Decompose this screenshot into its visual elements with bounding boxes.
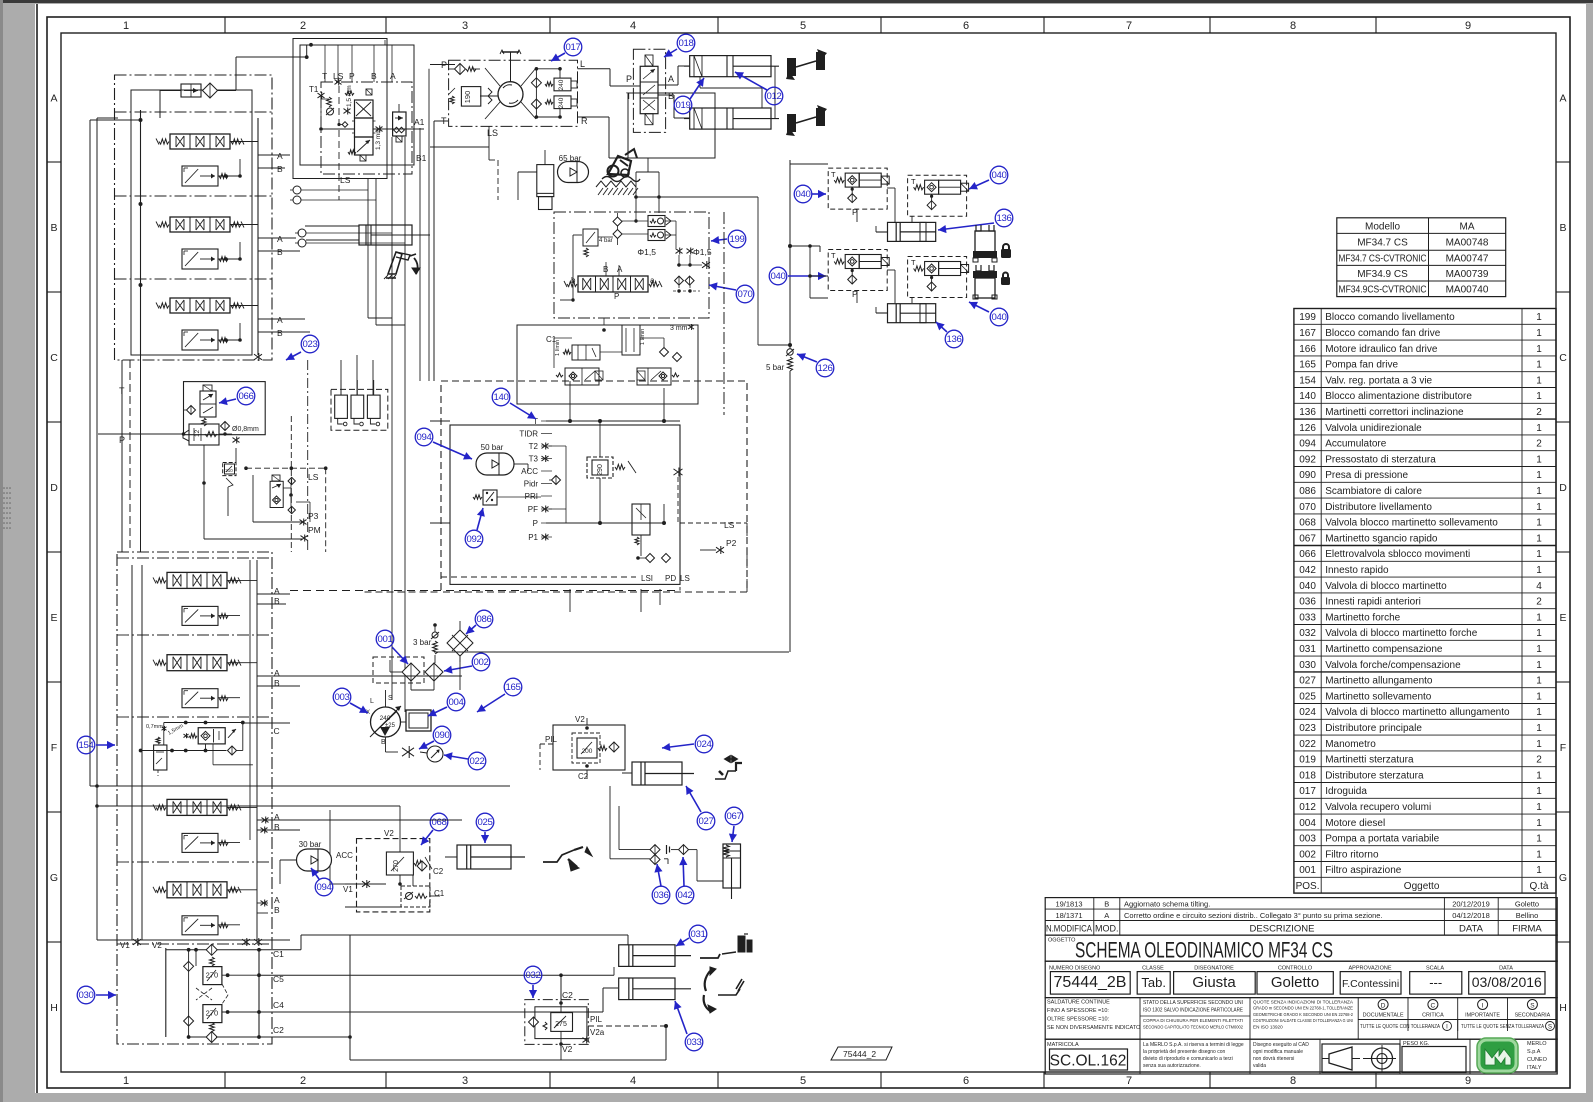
- svg-text:Disegno eseguito al CAD: Disegno eseguito al CAD: [1253, 1042, 1309, 1048]
- grid column ticks: [225, 17, 1376, 1088]
- block 032 inner frame: [535, 1007, 587, 1039]
- svg-text:A: A: [274, 668, 280, 678]
- lower section 4 sub valve: [182, 916, 228, 935]
- section 3 port B label: [277, 328, 283, 338]
- pump V marks: [488, 88, 492, 104]
- svg-text:1: 1: [1536, 312, 1542, 323]
- label 3mm: [670, 324, 694, 332]
- svg-text:1: 1: [1536, 865, 1542, 876]
- svg-text:154: 154: [1299, 375, 1316, 386]
- svg-text:C: C: [1559, 352, 1567, 364]
- svg-text:C: C: [50, 352, 58, 364]
- heat exchanger 086: [447, 621, 473, 662]
- check diamonds lower 140: [636, 554, 670, 563]
- svg-text:199: 199: [729, 234, 744, 245]
- svg-text:001: 001: [377, 634, 392, 645]
- release cylinder 067: [723, 844, 741, 899]
- svg-text:094: 094: [316, 882, 332, 893]
- svg-text:024: 024: [696, 739, 712, 750]
- svg-text:210: 210: [225, 468, 233, 473]
- svg-text:Motore idraulico fan drive: Motore idraulico fan drive: [1325, 344, 1438, 355]
- feed block inner frame: [450, 425, 680, 584]
- svg-text:240: 240: [558, 79, 565, 90]
- circle ref 036: [652, 864, 670, 904]
- pilot lower section: [348, 137, 373, 161]
- cylinder link wires: [700, 66, 775, 118]
- leveling spool 199: [564, 265, 662, 301]
- svg-text:F: F: [51, 742, 57, 754]
- 018 outer wire box: [628, 93, 715, 158]
- svg-text:F: F: [1560, 742, 1566, 754]
- solenoid box 066 frame: [184, 382, 266, 435]
- labels V1 V2: [120, 938, 262, 950]
- circle ref 136 upper: [938, 209, 1013, 233]
- svg-text:POS.: POS.: [1296, 881, 1320, 892]
- circle ref 001: [376, 630, 408, 664]
- svg-text:040: 040: [991, 170, 1006, 181]
- solenoid 2pos left: [556, 368, 603, 385]
- labels 068: [384, 829, 445, 898]
- svg-text:070: 070: [1299, 502, 1316, 513]
- tractor lock icon lower: [973, 265, 1010, 299]
- lower section 4 spool: [153, 882, 241, 898]
- svg-text:Martinetto forche: Martinetto forche: [1325, 612, 1400, 623]
- svg-text:SCALA: SCALA: [1426, 966, 1444, 972]
- labels LSI PD LS: [641, 574, 690, 583]
- svg-text:B: B: [1559, 222, 1566, 234]
- svg-text:7: 7: [1126, 1075, 1132, 1087]
- svg-text:Martinetto compensazione: Martinetto compensazione: [1325, 644, 1443, 655]
- svg-text:092: 092: [1299, 454, 1316, 465]
- 199 wires: [598, 213, 676, 276]
- circle ref 092: [465, 508, 485, 548]
- svg-text:MF34.9 CS: MF34.9 CS: [1357, 269, 1408, 280]
- circle ref 002: [444, 653, 490, 673]
- circle ref 031: [676, 925, 707, 946]
- 024 pilot dashes: [572, 733, 600, 763]
- circle ref 018: [664, 34, 695, 57]
- leveling block 199 dash-dot box: [554, 212, 709, 318]
- label 1,3mm: [375, 128, 382, 150]
- svg-text:Scambiatore di calore: Scambiatore di calore: [1325, 486, 1422, 497]
- circle ref 136 lower: [936, 322, 963, 348]
- port PM: [301, 525, 321, 542]
- circle ref 094b: [311, 868, 333, 896]
- svg-text:T: T: [831, 251, 836, 260]
- 5bar check valve: [766, 349, 794, 372]
- svg-text:ACC: ACC: [521, 467, 538, 476]
- check diamond 024: [609, 742, 619, 752]
- svg-text:SECONDO CAPITOLATO TECNICO ME: SECONDO CAPITOLATO TECNICO MERLO CTM0002: [1143, 1025, 1243, 1031]
- svg-text:MERLO: MERLO: [1527, 1041, 1547, 1047]
- section 3 port A label: [277, 315, 283, 325]
- svg-text:1: 1: [1536, 375, 1542, 386]
- svg-text:1: 1: [1536, 549, 1542, 560]
- svg-text:Filtro ritorno: Filtro ritorno: [1325, 849, 1379, 860]
- svg-text:Motore diesel: Motore diesel: [1325, 818, 1385, 829]
- svg-text:I: I: [1482, 1003, 1484, 1010]
- steering cylinder 019 lower: [684, 108, 779, 129]
- svg-text:1 l/min: 1 l/min: [640, 329, 646, 345]
- svg-text:1: 1: [1536, 533, 1542, 544]
- title block bottom row: [1045, 1039, 1557, 1074]
- svg-text:MA00739: MA00739: [1446, 269, 1489, 280]
- accumulator mount cylinder: [537, 150, 554, 210]
- svg-text:A: A: [390, 71, 396, 81]
- pump rotor circle: [498, 82, 523, 107]
- svg-text:senza sua autorizzazione.: senza sua autorizzazione.: [1143, 1063, 1201, 1069]
- 070 wires: [554, 318, 664, 368]
- leveling valve block frame: [517, 325, 698, 404]
- LS dashed line: [244, 466, 327, 482]
- svg-text:Valvola di blocco martinetto a: Valvola di blocco martinetto allungament…: [1325, 707, 1510, 718]
- diamond checks 070: [660, 348, 682, 362]
- svg-text:7: 7: [1126, 20, 1132, 32]
- svg-text:Distributore livellamento: Distributore livellamento: [1325, 502, 1432, 513]
- svg-text:B: B: [277, 247, 283, 257]
- check diamonds 199: [613, 217, 622, 239]
- svg-text:033: 033: [686, 1037, 701, 1048]
- solenoid valve 066: [200, 385, 216, 426]
- 140 X port: [674, 468, 683, 477]
- svg-text:1: 1: [1536, 612, 1542, 623]
- svg-text:5: 5: [800, 1075, 806, 1087]
- svg-text:Innesti rapidi anteriori: Innesti rapidi anteriori: [1325, 597, 1421, 608]
- svg-text:T3: T3: [529, 455, 539, 464]
- svg-text:V2a: V2a: [590, 1028, 605, 1037]
- feed block port labels: [519, 417, 552, 542]
- coupling wires: [610, 786, 723, 881]
- svg-text:CUNEO: CUNEO: [1527, 1057, 1548, 1063]
- long LS dashed return: [290, 577, 680, 591]
- distributor section 1 sub valve: [182, 166, 228, 186]
- port labels 017: [441, 59, 588, 138]
- svg-text:019: 019: [1299, 755, 1316, 766]
- circle ref 033: [674, 1001, 703, 1051]
- lower section 3 spool: [153, 799, 241, 815]
- svg-text:±25: ±25: [385, 723, 396, 729]
- svg-text:Corretto ordine e circuito sez: Corretto ordine e circuito sezioni distr…: [1124, 911, 1383, 920]
- svg-text:166: 166: [1299, 344, 1316, 355]
- fork cylinder 033: [619, 978, 691, 1000]
- svg-text:Idroguida: Idroguida: [1325, 786, 1367, 797]
- A wire: [658, 66, 690, 85]
- lower section 2 sub valve: [182, 689, 228, 708]
- svg-text:002: 002: [1299, 849, 1316, 860]
- svg-text:Modello: Modello: [1365, 221, 1400, 232]
- relief 270 upper: [184, 957, 222, 985]
- svg-text:2: 2: [1536, 407, 1542, 418]
- pilot unload check: [321, 96, 334, 116]
- svg-text:A: A: [617, 265, 623, 274]
- tilt icon 033: [704, 967, 744, 1013]
- svg-text:A: A: [668, 74, 674, 84]
- LS riser lines: [368, 40, 405, 712]
- svg-text:190: 190: [463, 91, 472, 104]
- svg-text:T: T: [911, 177, 916, 186]
- relief 210: [223, 463, 236, 488]
- lower section 2 spool: [153, 655, 241, 671]
- wire y246: [790, 246, 820, 252]
- circle ref 025: [476, 813, 494, 843]
- svg-text:L: L: [370, 698, 374, 705]
- pilot reducer 12: [178, 424, 252, 446]
- solenoid 2pos right: [637, 368, 679, 385]
- pilot wires: [319, 86, 424, 200]
- svg-text:H: H: [1559, 1002, 1567, 1014]
- distributor section 2 spool: [156, 217, 244, 232]
- svg-text:5: 5: [800, 20, 806, 32]
- wire 030 outputs: [259, 935, 666, 1060]
- solenoid valve 140: [632, 504, 650, 545]
- accumulator feed wire: [430, 421, 528, 471]
- svg-text:Ø0,8mm: Ø0,8mm: [232, 426, 259, 433]
- svg-text:G: G: [50, 872, 58, 884]
- svg-text:Pompa fan drive: Pompa fan drive: [1325, 360, 1398, 371]
- title block fields row: [1045, 961, 1557, 997]
- svg-text:P: P: [533, 519, 538, 528]
- cross pilot dashes 030: [196, 984, 228, 1004]
- circle ref 022: [444, 752, 486, 770]
- svg-text:290: 290: [597, 464, 604, 476]
- svg-text:165: 165: [505, 682, 520, 693]
- svg-text:Φ1,5: Φ1,5: [693, 247, 712, 257]
- svg-text:092: 092: [466, 534, 481, 545]
- svg-text:TUTTE LE QUOTE SENZA TOLLERANZ: TUTTE LE QUOTE SENZA TOLLERANZA: [1461, 1024, 1545, 1030]
- svg-text:03/08/2016: 03/08/2016: [1472, 974, 1542, 990]
- wires into 199 top: [634, 158, 790, 345]
- svg-text:MA00740: MA00740: [1446, 285, 1489, 296]
- circle ref 165: [477, 678, 522, 712]
- svg-text:B: B: [277, 164, 283, 174]
- svg-text:ogni modifica manuale: ogni modifica manuale: [1253, 1049, 1303, 1055]
- svg-text:036: 036: [653, 890, 668, 901]
- svg-text:1: 1: [1536, 770, 1542, 781]
- svg-text:19/1813: 19/1813: [1055, 900, 1082, 909]
- relief 290: [587, 457, 636, 478]
- filter wires: [411, 652, 435, 690]
- lower distributor bus lines: [132, 560, 257, 940]
- svg-text:Presa di pressione: Presa di pressione: [1325, 470, 1408, 481]
- svg-text:154: 154: [78, 740, 94, 751]
- svg-text:002: 002: [473, 657, 488, 668]
- compensation top cylinder: [359, 225, 430, 245]
- diamonds right of selector: [288, 477, 295, 513]
- shock valve 240 upper: [545, 78, 577, 91]
- svg-text:1: 1: [1536, 454, 1542, 465]
- extension cylinder 027: [622, 762, 694, 785]
- svg-text:Giusta: Giusta: [1192, 974, 1236, 991]
- svg-text:1: 1: [1536, 786, 1542, 797]
- distributor section 3 sub valve: [182, 330, 228, 350]
- svg-text:30 bar: 30 bar: [299, 840, 322, 849]
- svg-text:C4: C4: [273, 1000, 284, 1010]
- inclination cylinder 136 lower: [876, 304, 936, 323]
- T wire 017: [434, 121, 448, 381]
- feed block 140 dashed box: [441, 381, 747, 592]
- svg-text:MOD.: MOD.: [1095, 924, 1119, 934]
- wire 126 vertical: [788, 160, 792, 652]
- svg-text:3: 3: [462, 20, 468, 32]
- pilot block port labels: [322, 71, 396, 81]
- LSI dashed stub: [441, 576, 636, 578]
- lower check 068: [401, 886, 430, 907]
- P feed wire to reducer: [98, 432, 185, 445]
- circle ref 086: [466, 610, 493, 634]
- svg-text:CONTROLLO: CONTROLLO: [1278, 966, 1313, 972]
- B wire: [658, 95, 690, 118]
- svg-text:b: b: [571, 276, 576, 285]
- svg-text:023: 023: [302, 339, 317, 350]
- svg-text:042: 042: [1299, 565, 1316, 576]
- svg-text:3 bar: 3 bar: [413, 638, 432, 647]
- wires pilot to 140: [420, 69, 429, 381]
- svg-text:Accumulatore: Accumulatore: [1325, 439, 1387, 450]
- 140 internal wires: [546, 381, 680, 556]
- coupling diamond 042: [671, 845, 689, 855]
- circle ref 126: [797, 353, 834, 377]
- svg-text:1: 1: [123, 1075, 129, 1087]
- labels 032: [562, 990, 605, 1054]
- double check upper: [648, 216, 671, 227]
- gauge ports dashed box: [331, 389, 388, 430]
- pilot mid section: [352, 118, 376, 137]
- svg-text:032: 032: [1299, 628, 1316, 639]
- svg-text:T1: T1: [309, 85, 319, 94]
- check diamond 066: [183, 406, 196, 415]
- lower section 1 spool: [153, 572, 241, 588]
- svg-text:031: 031: [690, 929, 705, 940]
- lower section 1 ports: [218, 580, 280, 615]
- svg-text:126: 126: [817, 363, 832, 374]
- svg-text:ISO 1302 SALVO INDICAZIONE PAR: ISO 1302 SALVO INDICAZIONE PARTICOLARE: [1143, 1008, 1243, 1014]
- lower section 4 ports: [218, 890, 280, 925]
- circle ref 030: [77, 986, 116, 1004]
- quick couplings section2: [295, 229, 405, 247]
- svg-text:Filtro aspirazione: Filtro aspirazione: [1325, 865, 1402, 876]
- svg-text:2: 2: [1536, 597, 1542, 608]
- svg-text:1: 1: [1536, 644, 1542, 655]
- svg-text:TIDR: TIDR: [519, 430, 538, 439]
- section A/B wires: [258, 155, 310, 332]
- svg-text:IMPORTANTE: IMPORTANTE: [1465, 1013, 1500, 1019]
- svg-text:V2: V2: [384, 829, 394, 838]
- labels 030: [273, 949, 284, 1035]
- svg-text:126: 126: [1299, 423, 1316, 434]
- machine tilt icon: [602, 149, 640, 182]
- svg-text:divieto di riprodurlo e comuni: divieto di riprodurlo e comunicarlo a te…: [1143, 1056, 1233, 1062]
- circle ref 019: [674, 78, 704, 114]
- wire 140 P to left: [430, 523, 450, 786]
- svg-text:S.p.A: S.p.A: [1527, 1049, 1541, 1055]
- svg-text:H: H: [50, 1002, 58, 1014]
- svg-text:a: a: [650, 276, 655, 285]
- hook icon: [715, 756, 742, 779]
- svg-text:A: A: [277, 315, 283, 325]
- svg-text:PM: PM: [308, 525, 321, 535]
- svg-text:E: E: [1559, 612, 1566, 624]
- relief 275 in 024: [577, 738, 607, 758]
- line filters to pump: [410, 690, 412, 700]
- svg-text:P: P: [626, 74, 632, 84]
- wire 027 line: [586, 800, 588, 806]
- svg-text:SE NON DIVERSAMENTE INDICATO: SE NON DIVERSAMENTE INDICATO: [1047, 1025, 1141, 1031]
- svg-text:SALDATURE CONTINUE: SALDATURE CONTINUE: [1047, 1000, 1110, 1006]
- svg-text:031: 031: [1299, 644, 1316, 655]
- svg-text:DATA: DATA: [1499, 966, 1513, 972]
- 017 internal wires: [480, 67, 562, 119]
- svg-text:Valvola di blocco martinetto f: Valvola di blocco martinetto forche: [1325, 628, 1478, 639]
- svg-text:ITALY: ITALY: [1527, 1065, 1542, 1071]
- label C1: [546, 335, 557, 344]
- svg-text:1: 1: [1536, 391, 1542, 402]
- svg-text:022: 022: [1299, 739, 1316, 750]
- svg-text:140: 140: [1299, 391, 1316, 402]
- svg-text:COPPIA DI CHIUSURA PER ELEMENT: COPPIA DI CHIUSURA PER ELEMENTI FILETTAT…: [1143, 1018, 1243, 1024]
- wire 023 top: [160, 43, 313, 118]
- circle ref 094: [415, 428, 472, 459]
- section G wires A/B: [257, 817, 462, 834]
- lower section 3 sub valve: [182, 833, 228, 852]
- svg-text:5 bar: 5 bar: [766, 363, 785, 372]
- 199 pilot wire: [560, 235, 582, 302]
- svg-text:270: 270: [206, 1009, 219, 1018]
- x mark 023 bottom: [254, 353, 262, 361]
- check 3bar: [413, 623, 439, 654]
- upper distributor separators: [115, 112, 273, 279]
- svg-text:P: P: [119, 435, 125, 445]
- 066 cluster wires: [202, 445, 310, 539]
- idroguida diagonals: [485, 68, 536, 119]
- 032 wires: [559, 999, 668, 1048]
- distributor section 3 spool: [156, 298, 244, 313]
- svg-text:GEOMETRICHE GRADO K SECONDO UN: GEOMETRICHE GRADO K SECONDO UNI EN 22768…: [1253, 1012, 1353, 1017]
- svg-text:Φ1,5: Φ1,5: [637, 247, 656, 257]
- test point 090: [398, 746, 420, 758]
- svg-text:04/12/2018: 04/12/2018: [1452, 911, 1490, 920]
- distributor section 1 spool: [156, 134, 244, 149]
- pilot compensator: [393, 104, 406, 142]
- svg-text:50 bar: 50 bar: [481, 443, 504, 452]
- svg-text:MATRICOLA: MATRICOLA: [1047, 1042, 1079, 1048]
- port labels 018: [626, 74, 674, 101]
- wire y164: [790, 163, 828, 165]
- gauge port risers: [341, 355, 373, 395]
- section F wires A/B: [257, 676, 462, 686]
- lower section 2 ports: [218, 663, 280, 698]
- svg-text:la proprietà del presente dise: la proprietà del presente disegno con: [1143, 1049, 1225, 1055]
- steering cylinder 019 upper: [684, 56, 779, 77]
- merlo logo: [1477, 1038, 1548, 1073]
- main distributor inner frame: [131, 90, 252, 355]
- svg-text:L: L: [580, 59, 585, 69]
- svg-text:18/1371: 18/1371: [1055, 911, 1082, 920]
- svg-text:003: 003: [1299, 834, 1316, 845]
- circle ref 199: [711, 230, 746, 248]
- pilot selector valve: [270, 475, 283, 508]
- svg-text:032: 032: [525, 970, 540, 981]
- check diamond 032: [529, 1017, 539, 1027]
- circle ref 017: [551, 38, 582, 61]
- svg-text:018: 018: [678, 38, 693, 49]
- svg-text:ACC: ACC: [336, 851, 353, 860]
- svg-text:STATO DELLA SUPERFICIE SECONDO: STATO DELLA SUPERFICIE SECONDO UNI: [1143, 1000, 1243, 1006]
- svg-text:024: 024: [1299, 707, 1316, 718]
- check diamond 068: [417, 861, 427, 871]
- svg-text:1: 1: [1536, 328, 1542, 339]
- svg-text:012: 012: [766, 91, 781, 102]
- svg-text:A: A: [277, 234, 283, 244]
